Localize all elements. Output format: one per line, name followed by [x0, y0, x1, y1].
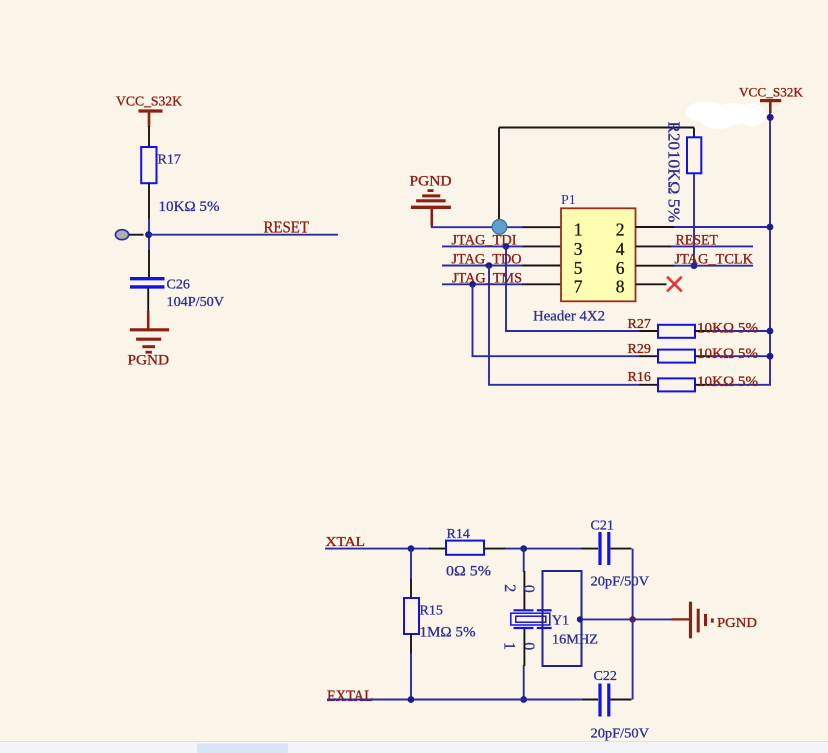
pin stub Y1 top	[523, 571, 525, 610]
svg-text:R27: R27	[628, 317, 651, 332]
svg-text:1MΩ 5%: 1MΩ 5%	[420, 625, 476, 641]
ground PGND (top middle)	[410, 174, 452, 227]
node port ellipse	[115, 230, 128, 240]
wire JTAG_TMS net	[442, 283, 523, 285]
wire R16 to VCC rail	[712, 384, 771, 386]
pin stub R15 bottom	[410, 634, 412, 654]
svg-text:10KΩ 5%: 10KΩ 5%	[697, 374, 758, 390]
wire top horizontal (black)	[499, 127, 694, 129]
pin stub header pin3	[523, 245, 562, 247]
junction dot TDO	[486, 262, 493, 269]
svg-text:RESET: RESET	[676, 232, 719, 248]
wire XTAL net	[325, 548, 430, 550]
svg-text:10KΩ 5%: 10KΩ 5%	[159, 199, 220, 215]
svg-text:Header 4X2: Header 4X2	[533, 309, 605, 325]
resistor R20 body	[687, 137, 701, 173]
svg-text:R17: R17	[158, 153, 181, 168]
wire JTAG_TCLK net	[674, 265, 753, 267]
junction dot on C21/C22 rail (dark red)	[629, 616, 636, 623]
pin stub R29 right	[695, 355, 713, 357]
bottom scrollbar thumb	[197, 744, 288, 753]
pin stub header pin6	[636, 265, 675, 267]
svg-text:10KΩ 5%: 10KΩ 5%	[697, 346, 758, 362]
bottom window strip	[0, 742, 828, 753]
junction dot TDI	[503, 243, 510, 250]
wire crystal column upper	[523, 549, 525, 572]
wire PGND to header pin 1	[432, 225, 523, 227]
junction dot XTAL/Y1 column	[520, 545, 527, 552]
power symbol VCC_S32K (left)	[116, 95, 182, 128]
pin stub header pin5	[523, 265, 562, 267]
svg-text:JTAG_TMS: JTAG_TMS	[452, 270, 522, 286]
pin stub header pin1	[523, 226, 562, 228]
pin stub header pin7	[523, 283, 562, 285]
ground PGND (left)	[130, 330, 169, 352]
resistor R15 body	[404, 598, 419, 634]
wire R27 to VCC rail	[712, 330, 770, 332]
pin stub R29 left	[640, 355, 659, 357]
wire R20 to JTAG_TCLK row	[693, 173, 695, 265]
crystal case outline rectangle	[543, 571, 582, 666]
svg-text:VCC_S32K: VCC_S32K	[739, 85, 804, 100]
pin stub R16 left	[640, 384, 659, 386]
wire C21/C22 vertical rail	[632, 549, 634, 700]
svg-text:4: 4	[616, 239, 625, 259]
pin stub header pin4	[636, 245, 672, 247]
svg-text:8: 8	[616, 277, 625, 297]
pin stub R14 right	[484, 548, 506, 550]
pin stub Y1 bottom	[523, 629, 525, 666]
svg-text:R20: R20	[665, 122, 684, 150]
svg-text:PGND: PGND	[717, 616, 757, 631]
svg-text:C22: C22	[594, 669, 617, 684]
svg-text:10KΩ 5%: 10KΩ 5%	[665, 151, 684, 223]
pin stub C22 left	[582, 699, 599, 701]
svg-text:PGND: PGND	[128, 353, 170, 369]
svg-text:P1: P1	[561, 193, 576, 208]
crystal Y1 body inner	[516, 616, 546, 622]
svg-text:JTAG_TCLK: JTAG_TCLK	[675, 251, 754, 267]
svg-text:1: 1	[501, 642, 518, 650]
wire TDI down to R27	[506, 246, 641, 331]
crystal Y1 body outer	[511, 613, 550, 625]
junction dot R20/TCLK	[691, 262, 698, 269]
pin stub R27 right	[695, 330, 713, 332]
wire down to R20	[693, 128, 695, 139]
pin stub header pin2	[636, 226, 675, 228]
pin stub header pin8	[636, 283, 667, 285]
junction dot EXTAL/Y1 column	[520, 696, 527, 703]
pin stub R16 right	[695, 384, 713, 386]
power symbol VCC_S32K (right)	[739, 85, 804, 114]
white smudge blob	[685, 102, 766, 130]
svg-text:20pF/50V: 20pF/50V	[591, 727, 650, 742]
connector P1 header body	[561, 208, 636, 301]
svg-text:EXTAL: EXTAL	[327, 688, 373, 705]
wire VCC vertical rail	[769, 112, 771, 385]
svg-text:2: 2	[501, 584, 518, 592]
resistor R14 body	[446, 541, 484, 555]
svg-text:1: 1	[574, 220, 583, 240]
svg-text:104P/50V: 104P/50V	[167, 295, 225, 310]
junction dot TMS	[469, 281, 476, 288]
pin stub C21 right	[611, 548, 632, 550]
pin stub R27 left	[640, 330, 659, 332]
capacitor C22 plates	[600, 684, 609, 717]
svg-text:RESET: RESET	[264, 218, 310, 237]
wire C26 to ground (pin stub)	[147, 288, 149, 312]
capacitor C26 plates	[130, 279, 165, 287]
wire TMS down to R29	[473, 284, 641, 356]
svg-text:20pF/50V: 20pF/50V	[591, 575, 650, 590]
no-connect X on pin 8	[667, 277, 682, 292]
crystal Y1 bottom plate	[514, 627, 552, 629]
wire R15 to EXTAL	[410, 653, 412, 700]
junction dot Y1 case/PGND wire	[577, 616, 583, 622]
svg-text:0: 0	[520, 642, 537, 650]
svg-text:2: 2	[616, 220, 625, 240]
wire Y1 case to PGND	[582, 618, 673, 620]
junction dot R27/VCC	[767, 328, 774, 335]
resistor R27 body	[658, 325, 695, 338]
wire stub PGND (dark red)	[672, 618, 690, 620]
wire crystal column lower	[523, 665, 525, 700]
wire ground stem	[147, 311, 150, 329]
wire JTAG_TDI net	[442, 245, 523, 247]
svg-text:R16: R16	[628, 370, 651, 385]
big blue node dot	[492, 220, 507, 235]
junction dot pin2/VCC	[767, 224, 774, 231]
junction dot XTAL/R15	[408, 545, 415, 552]
junction dot below VCC bar	[767, 114, 774, 121]
svg-text:C26: C26	[167, 278, 190, 293]
svg-text:Y1: Y1	[552, 613, 569, 628]
pin stub R15 top	[410, 579, 412, 599]
resistor R16 body	[658, 378, 695, 391]
resistor R29 body	[658, 350, 695, 363]
svg-text:0: 0	[520, 585, 537, 593]
svg-text:10KΩ 5%: 10KΩ 5%	[697, 321, 758, 337]
svg-text:VCC_S32K: VCC_S32K	[116, 95, 182, 110]
junction dot at RESET node	[145, 231, 152, 238]
wire junction to C26 (pin stub)	[148, 250, 150, 278]
svg-text:3: 3	[574, 239, 583, 259]
capacitor C21 plates	[600, 532, 609, 565]
junction dot EXTAL/R15	[408, 696, 415, 703]
wire JTAG_TDO net	[442, 265, 523, 267]
ground PGND (bottom right)	[691, 602, 713, 639]
junction dot R29/VCC	[767, 353, 774, 360]
svg-text:16MHZ: 16MHZ	[552, 633, 598, 648]
pin stub C21 left	[582, 548, 599, 550]
svg-text:6: 6	[616, 258, 625, 278]
pin stub R14 left	[429, 548, 446, 550]
wire pin2 to VCC rail	[674, 226, 770, 228]
wire RESET net	[148, 234, 338, 236]
svg-text:0Ω 5%: 0Ω 5%	[446, 564, 491, 580]
wire RESET net (right)	[671, 245, 753, 247]
svg-text:C21: C21	[591, 519, 614, 534]
bottom strip top border	[0, 741, 828, 743]
wire TDO down to R16	[489, 266, 641, 385]
svg-text:5: 5	[574, 258, 583, 278]
pin stub C22 right	[611, 699, 632, 701]
resistor R1 7 body	[141, 147, 156, 183]
wire EXTAL net	[327, 699, 583, 701]
crystal Y1 top plate	[514, 609, 552, 611]
svg-text:R15: R15	[420, 604, 443, 619]
svg-text:PGND: PGND	[410, 174, 452, 190]
wire R14 to crystal column	[505, 548, 583, 550]
wire R29 to VCC rail	[712, 355, 770, 357]
wire R17 to node (pin stub)	[148, 183, 150, 220]
wire node to junction	[129, 234, 144, 236]
wire down to R15	[410, 549, 412, 580]
wire R17 stub to junction	[148, 219, 150, 252]
wire vertical from top wire to big node	[498, 128, 500, 223]
svg-text:7: 7	[574, 277, 583, 297]
wire VCC to R17	[148, 126, 150, 148]
svg-text:R29: R29	[628, 342, 651, 357]
